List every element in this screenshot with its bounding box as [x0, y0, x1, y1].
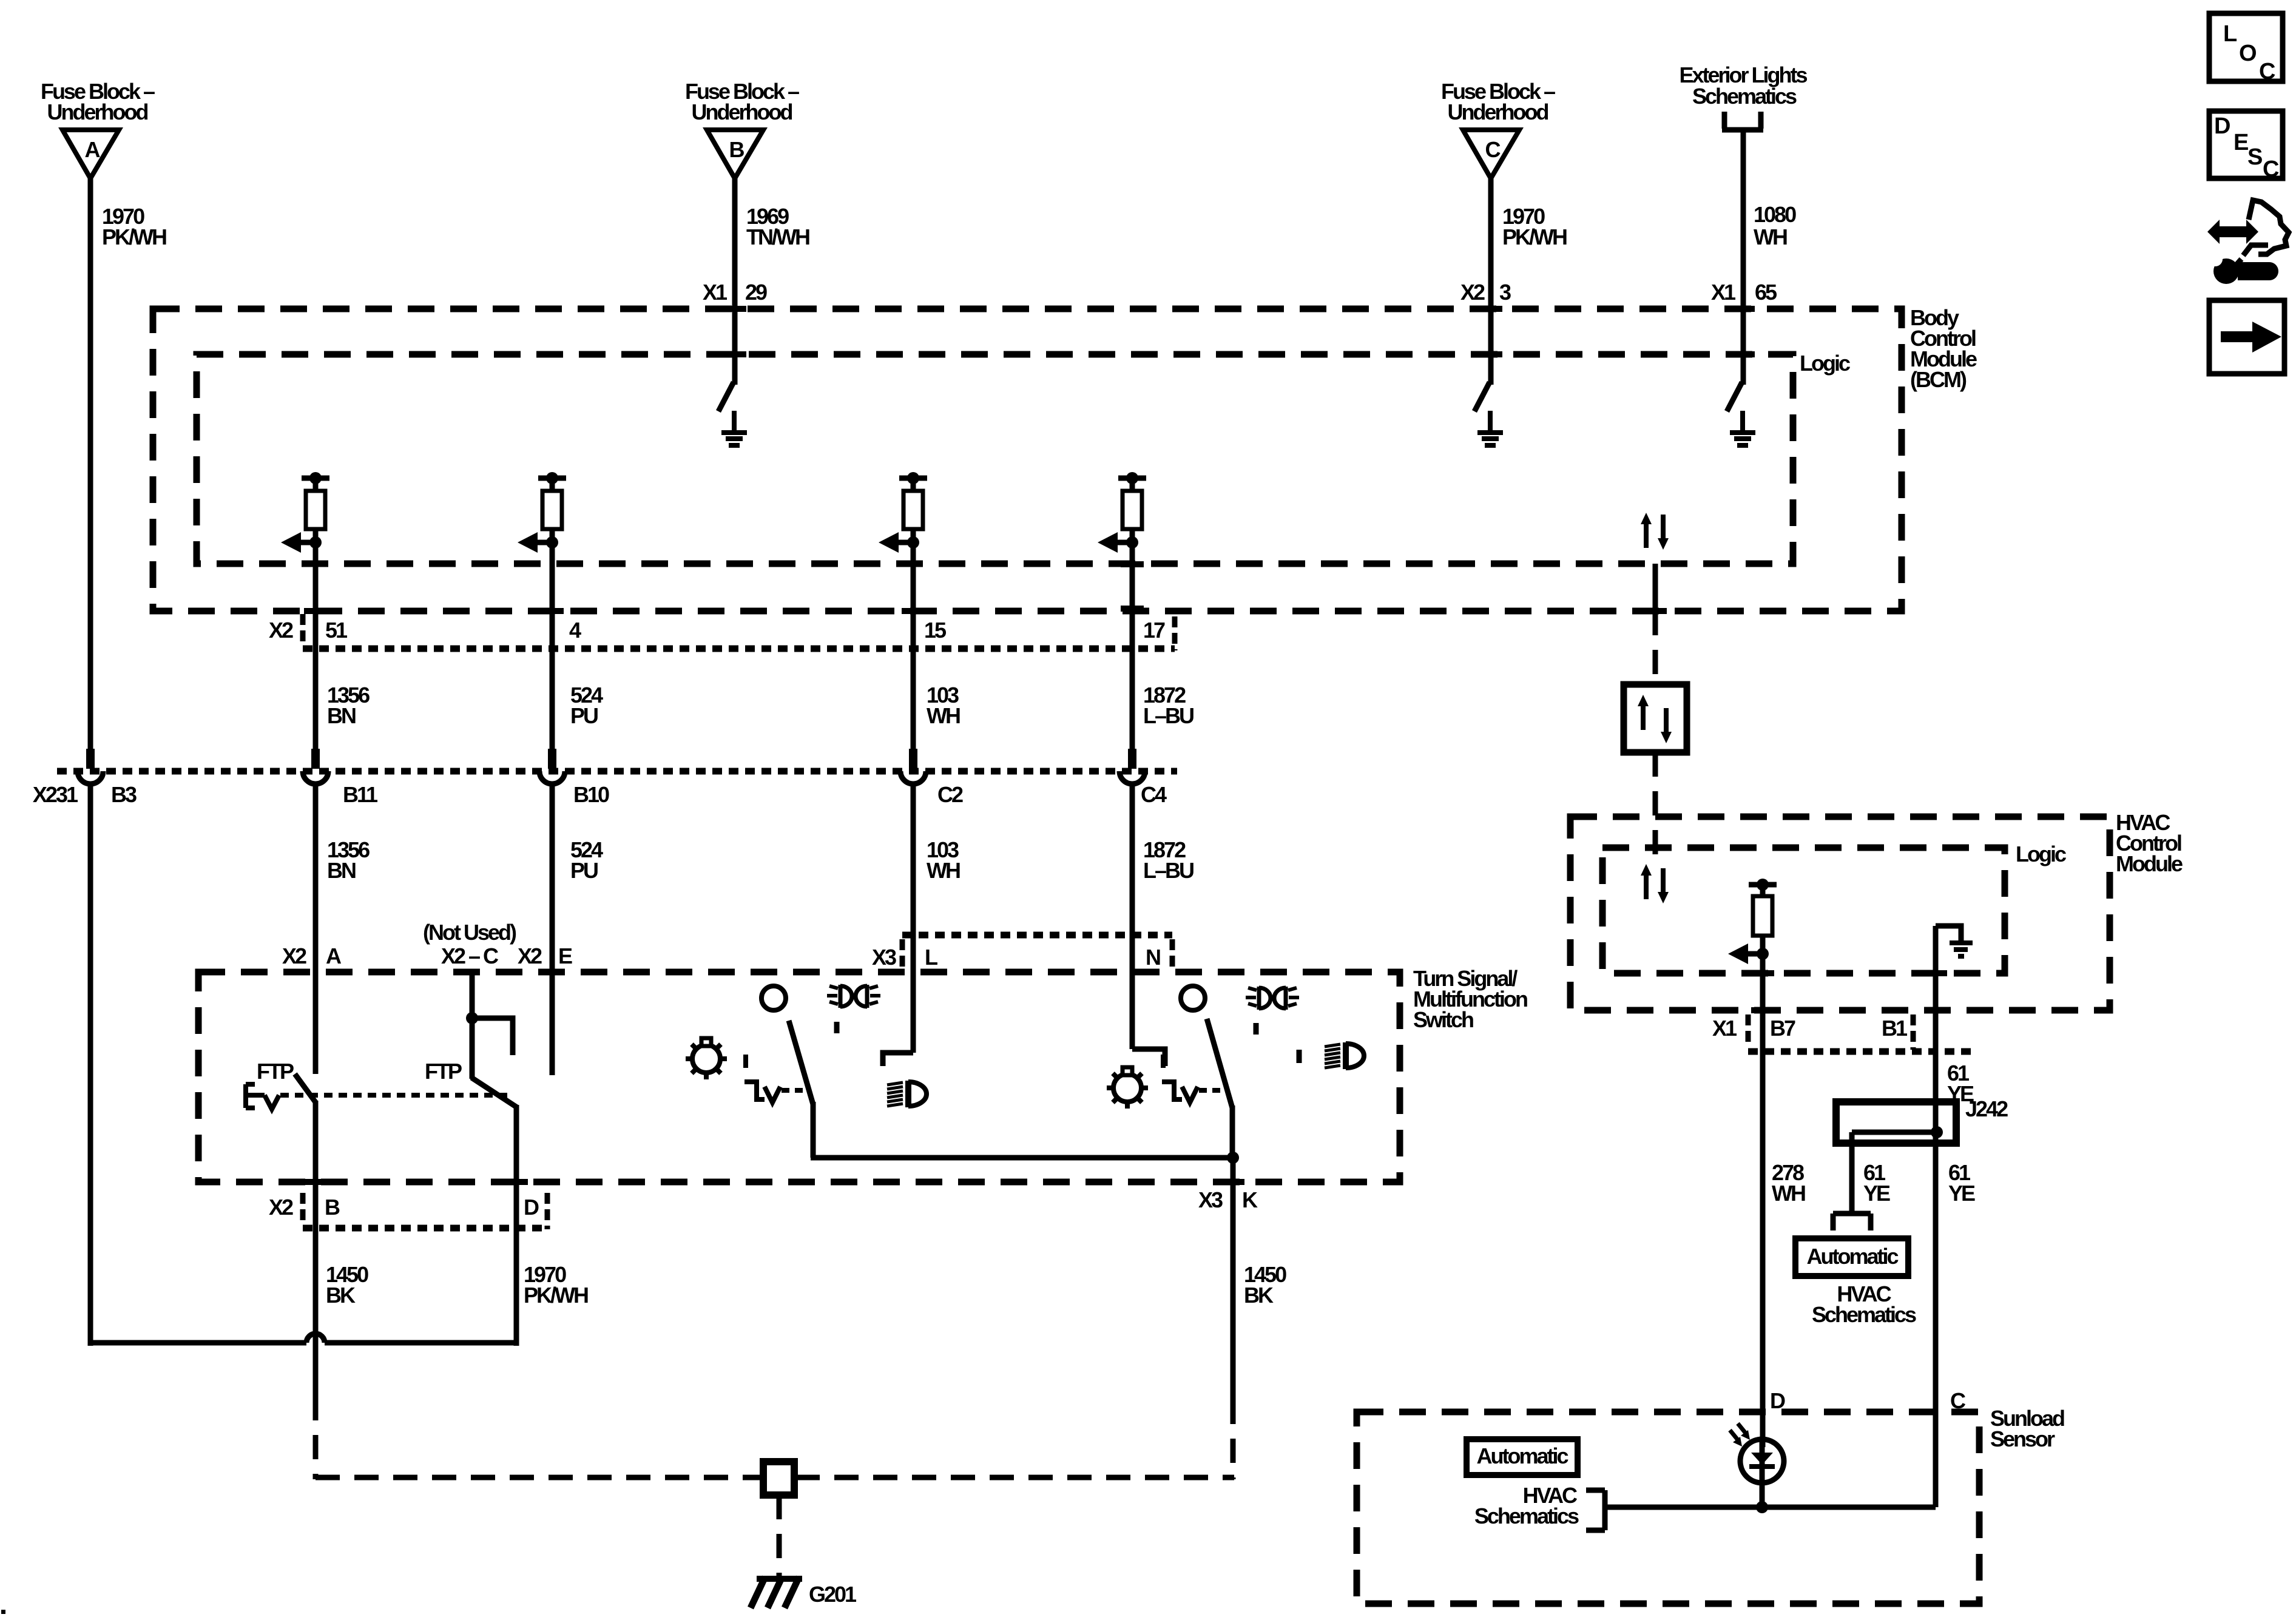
- svg-text:1080: 1080: [1754, 202, 1796, 227]
- svg-text:A: A: [85, 137, 101, 162]
- svg-text:WH: WH: [927, 858, 960, 883]
- svg-text:X2: X2: [282, 944, 306, 968]
- svg-text:X2: X2: [269, 1195, 293, 1220]
- svg-text:Schematics: Schematics: [1812, 1302, 1916, 1327]
- svg-text:PU: PU: [570, 858, 598, 883]
- svg-text:B7: B7: [1770, 1016, 1795, 1041]
- svg-text:X2 – C: X2 – C: [441, 944, 499, 968]
- svg-text:O: O: [2239, 41, 2256, 66]
- svg-text:51: 51: [325, 618, 348, 643]
- svg-text:L: L: [2223, 21, 2237, 47]
- svg-text:65: 65: [1755, 280, 1777, 305]
- svg-text:L–BU: L–BU: [1143, 703, 1194, 728]
- svg-text:A: A: [326, 944, 342, 968]
- svg-text:E: E: [2234, 130, 2248, 155]
- svg-text:Underhood: Underhood: [47, 100, 148, 124]
- svg-text:WH: WH: [1772, 1181, 1805, 1206]
- svg-text:PU: PU: [570, 703, 598, 728]
- svg-text:3: 3: [1499, 280, 1511, 305]
- svg-text:X2: X2: [518, 944, 542, 968]
- svg-text:X1: X1: [1711, 280, 1736, 305]
- svg-text:29: 29: [745, 280, 767, 305]
- svg-text:Schematics: Schematics: [1692, 84, 1797, 109]
- svg-text:B11: B11: [343, 782, 378, 807]
- svg-text:J242: J242: [1965, 1096, 2008, 1121]
- svg-text:4: 4: [569, 618, 581, 643]
- svg-text:B1: B1: [1882, 1016, 1908, 1041]
- svg-text:Automatic: Automatic: [1476, 1443, 1568, 1468]
- svg-text:X1: X1: [1712, 1016, 1737, 1041]
- svg-text:TN/WH: TN/WH: [746, 224, 809, 249]
- svg-text:WH: WH: [1754, 224, 1787, 249]
- svg-text:B: B: [729, 137, 745, 162]
- svg-text:N: N: [1146, 945, 1160, 970]
- svg-text:FTP: FTP: [257, 1059, 294, 1084]
- svg-text:C: C: [2259, 59, 2275, 84]
- svg-text:BN: BN: [327, 858, 356, 883]
- svg-text:D: D: [2214, 113, 2230, 139]
- svg-text:K: K: [1242, 1187, 1258, 1212]
- svg-text:Logic: Logic: [1800, 351, 1850, 376]
- svg-text:FTP: FTP: [425, 1059, 462, 1084]
- svg-text:Module: Module: [2116, 851, 2183, 876]
- svg-text:Automatic: Automatic: [1806, 1244, 1898, 1269]
- svg-text:PK/WH: PK/WH: [1502, 224, 1567, 249]
- svg-text:X1: X1: [703, 280, 728, 305]
- svg-text:Logic: Logic: [2016, 842, 2066, 866]
- svg-text:X231: X231: [33, 782, 78, 807]
- svg-text:B10: B10: [573, 782, 609, 807]
- svg-text:C: C: [1485, 137, 1501, 162]
- svg-text:L: L: [925, 945, 937, 970]
- svg-text:S: S: [2247, 144, 2262, 170]
- svg-text:Underhood: Underhood: [1448, 100, 1548, 124]
- svg-text:X2: X2: [1460, 280, 1485, 305]
- svg-text:Schematics: Schematics: [1474, 1504, 1579, 1528]
- svg-text:D: D: [524, 1195, 539, 1220]
- svg-text:B: B: [325, 1195, 340, 1220]
- svg-text:(BCM): (BCM): [1910, 367, 1967, 392]
- svg-text:X3: X3: [1198, 1187, 1223, 1212]
- svg-text:L–BU: L–BU: [1143, 858, 1194, 883]
- svg-text:X3: X3: [872, 945, 896, 970]
- svg-text:17: 17: [1143, 618, 1165, 643]
- svg-text:C: C: [2263, 157, 2279, 182]
- svg-text:Underhood: Underhood: [692, 100, 792, 124]
- svg-text:(Not Used): (Not Used): [423, 920, 516, 945]
- svg-text:PK/WH: PK/WH: [102, 224, 166, 249]
- svg-text:BK: BK: [326, 1283, 356, 1308]
- svg-text:Switch: Switch: [1413, 1007, 1473, 1032]
- svg-text:WH: WH: [927, 703, 960, 728]
- svg-text:YE: YE: [1948, 1181, 1975, 1206]
- svg-text:B3: B3: [111, 782, 137, 807]
- svg-text:YE: YE: [1863, 1181, 1890, 1206]
- svg-text:X2: X2: [269, 618, 293, 643]
- svg-text:C4: C4: [1141, 782, 1167, 807]
- svg-text:PK/WH: PK/WH: [524, 1283, 588, 1308]
- svg-text:E: E: [558, 944, 572, 968]
- svg-text:15: 15: [924, 618, 947, 643]
- svg-text:G201: G201: [809, 1582, 857, 1607]
- svg-text:BK: BK: [1244, 1283, 1274, 1308]
- svg-text:C2: C2: [937, 782, 963, 807]
- svg-text:Sensor: Sensor: [1990, 1426, 2055, 1451]
- svg-text:BN: BN: [327, 703, 356, 728]
